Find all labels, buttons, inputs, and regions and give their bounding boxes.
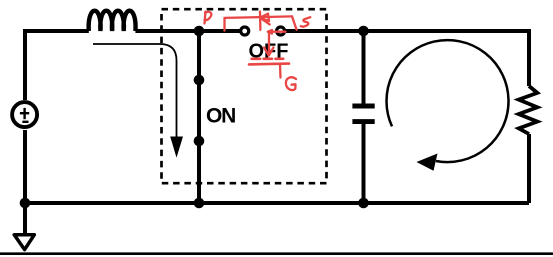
svg-text:ON: ON [206,104,235,127]
